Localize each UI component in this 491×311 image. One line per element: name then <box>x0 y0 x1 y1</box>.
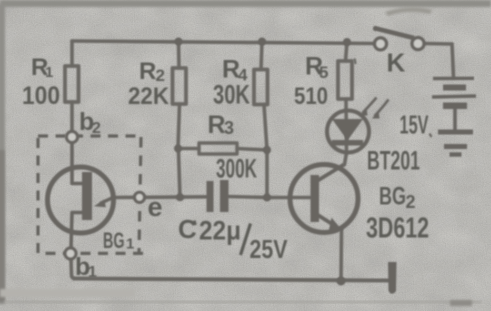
wire: R3-left junction down to e-wire junction <box>179 152 181 197</box>
dashed module box around BG1 <box>38 136 143 253</box>
earth ground (battery) <box>438 130 473 135</box>
svg-text:3: 3 <box>224 118 234 138</box>
svg-text:3D612: 3D612 <box>366 213 429 245</box>
svg-text:22μ: 22μ <box>199 216 241 246</box>
scan border: left band darker lower stretch <box>0 150 5 302</box>
BT201 body circle <box>327 111 369 153</box>
scan border: bottom-right smudge <box>450 300 472 306</box>
BG2 collector lead <box>317 165 344 182</box>
node e <box>135 192 145 202</box>
wire: R2 down to R3-left junction <box>178 104 180 149</box>
scan border: top-right diagonal smudge <box>385 7 432 16</box>
resistor R2 <box>173 68 187 104</box>
BG2 base bar <box>311 175 320 222</box>
svg-text:2: 2 <box>92 120 101 137</box>
scan border: left dark band <box>0 4 5 304</box>
wire: R1 branch from top rail <box>70 41 74 66</box>
resistor R4 <box>254 70 268 105</box>
scan border: bottom-left texture band <box>0 289 135 297</box>
wire: BG2 emitter down to bottom rail <box>339 229 343 281</box>
dashed box right edge <box>139 137 141 252</box>
wire: e node to capacitor left plate <box>145 195 207 199</box>
wire: R3 left lead <box>178 147 199 151</box>
wire: bottom rail <box>74 279 389 281</box>
svg-text:1: 1 <box>88 264 97 281</box>
svg-text:C: C <box>178 214 197 244</box>
svg-text:300K: 300K <box>216 154 257 184</box>
battery short plate 1 <box>443 85 466 91</box>
wire: R2 branch from top rail <box>177 42 181 69</box>
battery long plate 1 <box>433 77 474 81</box>
dashed box left edge <box>36 136 39 253</box>
BG1 base bar <box>82 172 92 220</box>
junction: R5 top <box>343 38 351 46</box>
wire: right drop from top rail to battery + <box>452 44 454 77</box>
wire: R4 branch from top rail <box>261 42 262 70</box>
open node circles <box>65 132 145 260</box>
wire: capacitor right plate to base junction <box>229 197 268 198</box>
svg-text:100: 100 <box>22 82 60 110</box>
resistor R1 <box>65 66 79 102</box>
junction: base wire / R4 branch <box>263 194 271 202</box>
switch K right contact <box>412 38 424 50</box>
svg-text:22K: 22K <box>128 83 170 110</box>
transistor BG2 (NPN 3D612) <box>290 165 358 233</box>
junction: R4 top <box>258 38 266 46</box>
switch K lever <box>374 28 414 38</box>
BT201 light arrow 1 <box>363 98 377 114</box>
chassis ground bar (bottom rail) <box>388 262 397 294</box>
wire: base junction to BG2 base <box>267 196 311 200</box>
node b2 <box>67 132 78 143</box>
scan border: top dark band <box>0 0 491 7</box>
dashed box top edge <box>38 134 141 137</box>
wire: R5 branch from top rail <box>346 42 348 61</box>
switch K <box>373 26 424 50</box>
scan border: bottom faint line <box>4 301 482 303</box>
capacitor C left plate <box>207 181 214 212</box>
BG1 b1 internal lead <box>71 213 83 249</box>
junction: R3 right <box>263 146 271 154</box>
svg-text:510: 510 <box>294 83 328 110</box>
svg-text:e: e <box>148 192 163 222</box>
wire: top rail right segment (switch right contact to top-right corner) <box>424 42 452 46</box>
junction: R2 top <box>175 38 183 46</box>
svg-text:BT201: BT201 <box>367 146 420 176</box>
svg-text:25V: 25V <box>250 236 288 264</box>
svg-text:15V: 15V <box>400 110 429 140</box>
BG2 body circle <box>290 165 358 233</box>
BG1 b2 internal lead <box>72 138 83 184</box>
svg-text:1: 1 <box>45 64 53 81</box>
junction: BG2 emitter at bottom rail <box>337 277 346 286</box>
BG2 emitter arrowhead <box>329 218 343 231</box>
BT201 cathode bar <box>332 140 363 146</box>
dashed box bottom edge <box>38 252 143 255</box>
svg-text:R: R <box>208 111 226 139</box>
BT201 anode triangle <box>332 119 363 141</box>
svg-text:30K: 30K <box>213 80 250 110</box>
capacitor C right plate <box>220 180 229 212</box>
photodiode BT201 <box>327 98 389 153</box>
wire: BT201 bottom to BG2 collector <box>345 153 347 165</box>
switch K left contact <box>375 38 387 50</box>
resistor R3 (horizontal) <box>199 143 237 154</box>
wire: R5 to BT201 top <box>344 99 348 153</box>
svg-text:R: R <box>139 58 156 85</box>
stray tick near R5 <box>355 59 356 65</box>
BT201 light arrow 2 <box>375 100 389 117</box>
svg-text:2: 2 <box>406 192 416 212</box>
wire: R1 to node b2 <box>70 102 74 132</box>
wire: battery - to earth ground <box>453 109 457 130</box>
wire: R3-right junction down to base junction <box>265 150 269 198</box>
battery 15V <box>432 78 476 154</box>
junction: R3 left <box>174 145 182 153</box>
wire: b1 node down and corner to bottom rail <box>71 259 76 279</box>
resistor R5 <box>338 61 352 99</box>
battery long plate 2 <box>432 96 476 97</box>
capacitor C plates <box>207 180 229 212</box>
junction: e wire / R2 branch <box>176 193 184 201</box>
BG2 emitter lead <box>317 215 336 227</box>
svg-text:1: 1 <box>126 236 134 253</box>
svg-text:5: 5 <box>319 63 328 82</box>
svg-text:K: K <box>387 48 406 78</box>
BG1 body circle <box>48 167 114 233</box>
node b1 <box>65 248 76 259</box>
battery short plate 2 <box>443 103 467 110</box>
wire: BG1 emitter lead (circle to node e) <box>113 196 135 200</box>
BG1 emitter arrow <box>100 198 113 204</box>
svg-text:BG: BG <box>379 183 406 211</box>
svg-text:BG: BG <box>103 228 125 253</box>
wire: top rail left segment (corner above R1 to switch left contact) <box>72 41 374 44</box>
wire: R3 right lead <box>237 149 267 151</box>
wire: R4 down to R3-right junction <box>264 105 267 151</box>
transistor BG1 (unijunction, in dashed module box) <box>48 138 114 249</box>
